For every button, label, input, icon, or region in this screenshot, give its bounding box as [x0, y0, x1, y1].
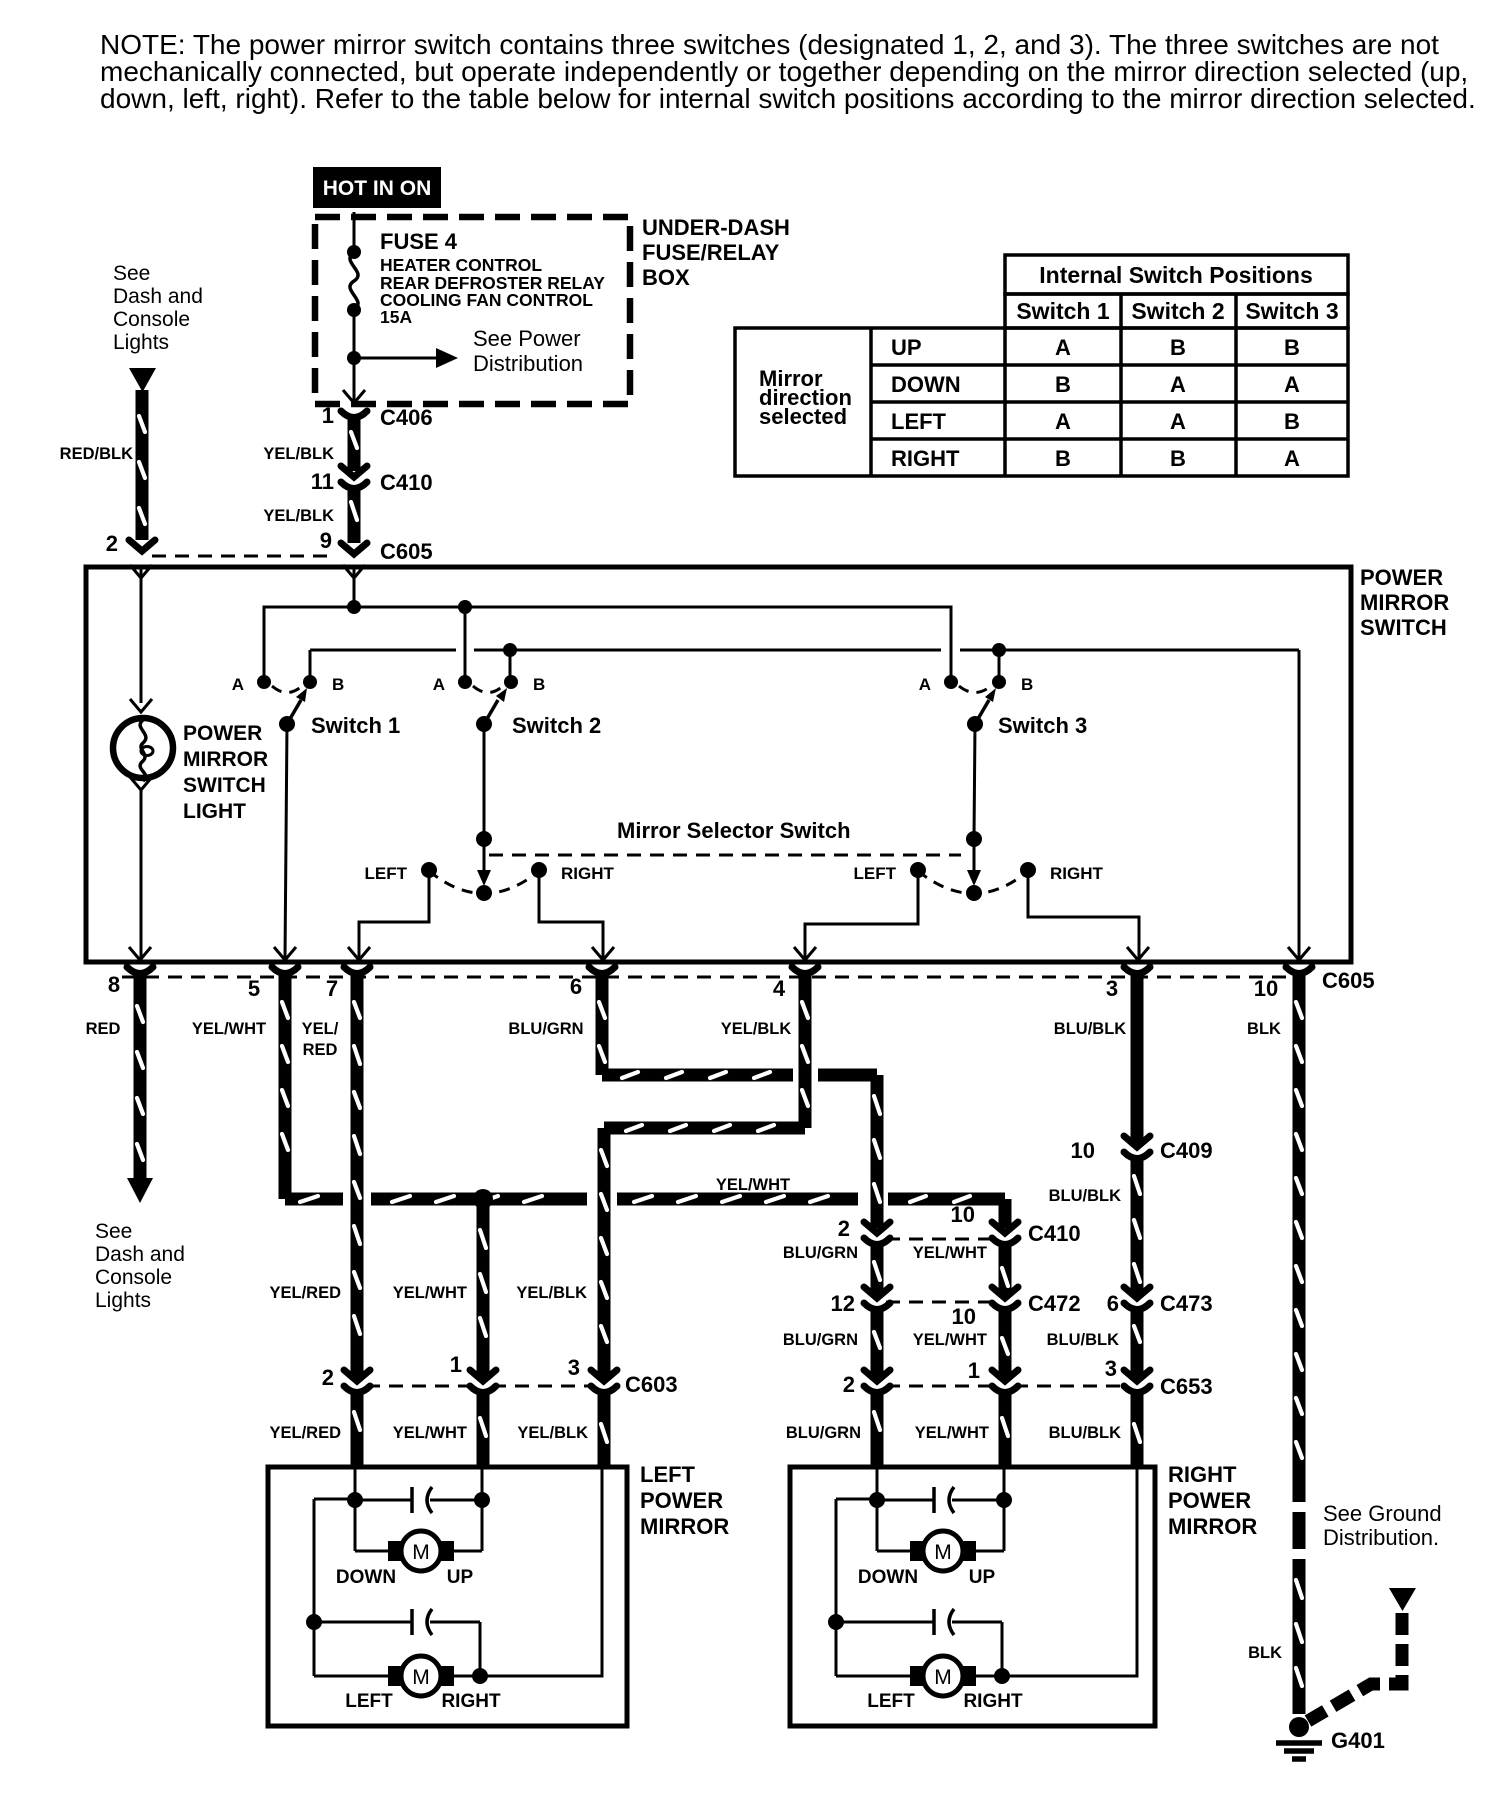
- selector throw arc (dashed): [918, 871, 1028, 894]
- wire pin2 to switch light: [140, 567, 143, 703]
- svg-text:1: 1: [450, 1352, 462, 1377]
- selector common node: [476, 885, 492, 901]
- connector C409 pin 10: [1071, 1136, 1213, 1163]
- svg-text:BLU/GRN: BLU/GRN: [783, 1244, 858, 1262]
- svg-text:Internal Switch Positions: Internal Switch Positions: [1039, 262, 1312, 288]
- svg-text:2: 2: [838, 1216, 850, 1241]
- wire pin2 into box: [876, 1467, 879, 1499]
- motor up/down: [876, 1500, 879, 1551]
- connector C653 pin 1: [968, 1358, 1018, 1393]
- svg-text:SWITCH: SWITCH: [1360, 615, 1447, 640]
- svg-text:G401: G401: [1331, 1728, 1385, 1753]
- svg-text:RIGHT: RIGHT: [891, 446, 960, 471]
- wire fuse to branch: [353, 310, 356, 358]
- svg-text:MIRROR: MIRROR: [640, 1514, 729, 1539]
- svg-text:M: M: [412, 1666, 430, 1689]
- node feed on A bus: [347, 600, 361, 614]
- svg-text:RIGHT: RIGHT: [963, 1691, 1023, 1712]
- svg-text:See: See: [113, 262, 150, 285]
- wire switch3 common to selector: [974, 724, 975, 838]
- svg-text:YEL/BLK: YEL/BLK: [263, 445, 334, 463]
- switch 1 contact A: [257, 675, 271, 689]
- svg-text:C410: C410: [380, 470, 433, 495]
- wire YEL/WHT C653 to right mirror: [999, 1393, 1012, 1467]
- svg-text:1: 1: [968, 1358, 980, 1383]
- connector C605 pin 10: [1286, 967, 1312, 974]
- wire from HOT IN ON into fuse box: [353, 212, 356, 252]
- connector C603 pin 3: [568, 1355, 678, 1397]
- connector C605 pin 7: [344, 967, 370, 974]
- wire BLK pin10 to ground: [1293, 974, 1306, 1502]
- svg-text:A: A: [1170, 409, 1186, 434]
- svg-text:11: 11: [311, 469, 334, 494]
- svg-text:YEL/WHT: YEL/WHT: [913, 1244, 987, 1262]
- svg-text:M: M: [412, 1541, 430, 1564]
- wire selector RIGHT contact to pin: [539, 870, 603, 958]
- svg-text:A: A: [1055, 409, 1071, 434]
- wire YEL/WHT junction down to C603: [477, 1199, 490, 1377]
- wire BLU/BLK C653 to right mirror: [1131, 1393, 1144, 1467]
- svg-text:FUSE 4: FUSE 4: [380, 229, 458, 254]
- svg-text:C653: C653: [1160, 1374, 1213, 1399]
- svg-text:Switch 2: Switch 2: [512, 713, 601, 738]
- svg-text:C473: C473: [1160, 1291, 1213, 1316]
- wire YEL/BLK pin4 down, left, down: [799, 974, 812, 1128]
- A bus wire: [264, 607, 951, 682]
- right power mirror box: [790, 1467, 1155, 1726]
- switch 2 contact B: [504, 675, 518, 689]
- wire ground distribution branch (dashed thick): [1308, 1613, 1402, 1721]
- svg-text:15A: 15A: [380, 307, 412, 327]
- svg-text:MIRROR: MIRROR: [1168, 1514, 1257, 1539]
- svg-text:LEFT: LEFT: [891, 409, 947, 434]
- svg-text:BLU/BLK: BLU/BLK: [1054, 1020, 1126, 1038]
- svg-text:LIGHT: LIGHT: [183, 800, 246, 823]
- svg-text:YEL/WHT: YEL/WHT: [913, 1331, 987, 1349]
- svg-text:B: B: [1021, 675, 1033, 694]
- node fuse4 bottom: [347, 303, 361, 317]
- wire pin1 into box: [481, 1467, 484, 1499]
- svg-text:A: A: [1055, 335, 1071, 360]
- svg-text:LEFT: LEFT: [867, 1691, 915, 1712]
- svg-text:YEL/WHT: YEL/WHT: [192, 1020, 266, 1038]
- selector throw arc (dashed): [429, 871, 539, 894]
- wire pin3 into box down right side: [483, 1467, 602, 1676]
- connector C605 pin 8: [127, 967, 153, 974]
- internal switch positions table: [735, 255, 1348, 476]
- connector C605 pin 6: [589, 967, 615, 974]
- wire YEL/WHT C410 to C472: [999, 1245, 1012, 1294]
- svg-text:3: 3: [1106, 976, 1118, 1001]
- breaker left/right: [314, 1621, 412, 1624]
- motor left/right: [313, 1622, 316, 1676]
- svg-text:YEL/RED: YEL/RED: [269, 1424, 341, 1442]
- off-page arrow from ground distribution: [1389, 1588, 1416, 1611]
- svg-text:UNDER-DASH: UNDER-DASH: [642, 215, 790, 240]
- wire switch2 common to selector: [483, 724, 486, 839]
- svg-text:YEL/BLK: YEL/BLK: [516, 1284, 587, 1302]
- label UNDER-DASH FUSE/RELAY BOX: [642, 215, 790, 290]
- entry arrow pin 2: [130, 565, 152, 578]
- switch 3 contact B: [992, 675, 1006, 689]
- svg-text:2: 2: [322, 1365, 334, 1390]
- node up/down right: [996, 1492, 1012, 1508]
- wire branch down to box edge: [353, 358, 356, 402]
- switch 2 throw arc (dashed): [473, 686, 503, 693]
- svg-text:C409: C409: [1160, 1138, 1213, 1163]
- svg-text:Switch 1: Switch 1: [1016, 298, 1110, 324]
- wire YEL/WHT horizontal run: [285, 1193, 343, 1206]
- switch 3 pivot: [967, 716, 983, 732]
- breaker up/down: [877, 1499, 934, 1502]
- switch 3 throw arc (dashed): [959, 686, 991, 693]
- svg-text:YEL/BLK: YEL/BLK: [517, 1424, 588, 1442]
- svg-text:down, left, right). Refer to t: down, left, right). Refer to the table b…: [100, 83, 1476, 114]
- svg-text:C406: C406: [380, 405, 433, 430]
- connector C473 pin 6: [1107, 1287, 1213, 1316]
- label POWER MIRROR SWITCH: [1360, 565, 1449, 640]
- svg-text:RED: RED: [303, 1041, 338, 1059]
- svg-text:B: B: [533, 675, 545, 694]
- svg-text:YEL/BLK: YEL/BLK: [263, 507, 334, 525]
- svg-text:12: 12: [831, 1291, 855, 1316]
- connector C603 pin 2: [322, 1365, 370, 1393]
- connector C605 pin 5: [272, 967, 298, 974]
- wire YEL/RED pin7 down to C603: [351, 974, 364, 1377]
- svg-text:Dash and: Dash and: [113, 285, 203, 308]
- svg-text:POWER: POWER: [640, 1488, 723, 1513]
- svg-text:LEFT: LEFT: [854, 864, 897, 883]
- svg-text:BLU/GRN: BLU/GRN: [786, 1424, 861, 1442]
- svg-text:Switch 1: Switch 1: [311, 713, 400, 738]
- bulb terminal arrow bottom: [130, 777, 152, 790]
- wire YEL/WHT C603 to left mirror: [477, 1393, 490, 1467]
- wire switch1 common to pin 5: [285, 724, 287, 958]
- node A bus to switch2: [458, 600, 472, 614]
- svg-text:Console: Console: [95, 1266, 172, 1289]
- connector C653 pin 2: [843, 1370, 890, 1397]
- wire selector LEFT contact to pin: [359, 870, 429, 958]
- svg-text:Switch 3: Switch 3: [998, 713, 1087, 738]
- svg-text:YEL/WHT: YEL/WHT: [716, 1176, 790, 1194]
- switch 1 pivot: [279, 716, 295, 732]
- svg-text:RIGHT: RIGHT: [441, 1691, 501, 1712]
- connector C472 pin 12: [831, 1287, 1081, 1316]
- svg-text:M: M: [934, 1541, 952, 1564]
- node left/right motor right: [994, 1668, 1010, 1684]
- node see-power-distribution branch: [347, 351, 361, 365]
- entry arrow pin 9: [343, 565, 365, 578]
- svg-text:BLK: BLK: [1248, 1644, 1282, 1662]
- mirror selector dashed line: [489, 854, 961, 857]
- selector wiper arrow: [973, 839, 976, 874]
- svg-text:7: 7: [326, 976, 338, 1001]
- svg-text:UP: UP: [447, 1567, 474, 1588]
- svg-text:B: B: [1170, 446, 1186, 471]
- svg-text:RED/BLK: RED/BLK: [60, 445, 133, 463]
- selector wiper node: [476, 831, 492, 847]
- svg-text:POWER: POWER: [1168, 1488, 1251, 1513]
- svg-text:Switch 2: Switch 2: [1131, 298, 1224, 324]
- connector C605 bottom row (dashed): [122, 976, 1290, 979]
- dashed line C410: [886, 1238, 996, 1241]
- selector common node: [966, 885, 982, 901]
- wire YEL/WHT corner down to C410 pin 10: [999, 1199, 1012, 1228]
- label See Power Distribution: [473, 326, 583, 376]
- svg-text:2: 2: [843, 1372, 855, 1397]
- svg-text:A: A: [1284, 446, 1300, 471]
- svg-text:6: 6: [570, 974, 582, 999]
- svg-text:YEL/RED: YEL/RED: [269, 1284, 341, 1302]
- svg-text:A: A: [919, 675, 931, 694]
- connector C605 pin 9: [320, 528, 433, 564]
- node left/right motor right: [472, 1668, 488, 1684]
- svg-text:UP: UP: [969, 1567, 996, 1588]
- node up/down right: [474, 1492, 490, 1508]
- label LEFT POWER MIRROR: [640, 1462, 729, 1539]
- breaker left/right: [836, 1621, 934, 1624]
- svg-text:2: 2: [106, 531, 118, 556]
- box exit arrows: [129, 947, 151, 960]
- svg-text:HEATER CONTROL: HEATER CONTROL: [380, 255, 542, 275]
- wire YEL/BLK C603 to left mirror: [598, 1393, 611, 1467]
- label FUSE 4 with values: [380, 229, 605, 327]
- svg-text:selected: selected: [759, 404, 847, 429]
- node YEL/WHT junction: [473, 1189, 493, 1209]
- node left/right branch: [828, 1614, 844, 1630]
- svg-text:B: B: [332, 675, 344, 694]
- connector C410 pin 2: [838, 1216, 890, 1245]
- switch 2 contact A: [458, 675, 472, 689]
- wire BLU/GRN pin6 down and right: [596, 974, 609, 1075]
- motor up/down: [354, 1500, 357, 1551]
- dashed line C653: [886, 1385, 996, 1388]
- motor left/right: [835, 1622, 838, 1676]
- svg-text:LEFT: LEFT: [640, 1462, 696, 1487]
- svg-text:9: 9: [320, 528, 332, 553]
- svg-text:DOWN: DOWN: [858, 1567, 918, 1588]
- node B bus switch2: [503, 643, 517, 657]
- svg-text:BLU/BLK: BLU/BLK: [1049, 1424, 1121, 1442]
- svg-text:C472: C472: [1028, 1291, 1081, 1316]
- wire pin1 into box: [1003, 1467, 1006, 1499]
- svg-text:MIRROR: MIRROR: [1360, 590, 1449, 615]
- svg-text:RIGHT: RIGHT: [1050, 864, 1104, 883]
- wire selector LEFT contact to pin: [805, 870, 918, 958]
- fuse F4 element (squiggle): [350, 252, 358, 310]
- wire branch to left/right motor: [314, 1498, 355, 1501]
- svg-text:C410: C410: [1028, 1221, 1081, 1246]
- wire bulb to pin 8: [140, 789, 143, 958]
- svg-text:10: 10: [952, 1304, 976, 1329]
- svg-text:A: A: [1284, 372, 1300, 397]
- bulb terminal arrow top: [130, 699, 152, 712]
- svg-text:DOWN: DOWN: [336, 1567, 396, 1588]
- connector C410 pin 11: [311, 466, 433, 495]
- svg-text:3: 3: [568, 1355, 580, 1380]
- svg-text:3: 3: [1105, 1356, 1117, 1381]
- svg-text:FUSE/RELAY: FUSE/RELAY: [642, 240, 780, 265]
- svg-text:1: 1: [322, 403, 334, 428]
- label See Ground Distribution: [1323, 1501, 1442, 1550]
- switch 1 contact B: [303, 675, 317, 689]
- svg-text:Dash and: Dash and: [95, 1243, 185, 1266]
- dashed line C603: [366, 1385, 474, 1388]
- node up/down left: [347, 1492, 363, 1508]
- under-dash fuse/relay box (dashed): [315, 217, 630, 404]
- svg-text:B: B: [1284, 335, 1300, 360]
- node left/right branch: [306, 1614, 322, 1630]
- dashed line C472: [886, 1301, 996, 1304]
- svg-text:YEL/BLK: YEL/BLK: [721, 1020, 792, 1038]
- svg-text:BLU/BLK: BLU/BLK: [1049, 1187, 1121, 1205]
- power mirror switch box: [86, 567, 1351, 962]
- svg-text:C605: C605: [1322, 968, 1375, 993]
- power mirror switch light (bulb): [113, 718, 173, 781]
- connector C603 pin 1: [450, 1352, 496, 1393]
- selector LEFT contact: [421, 862, 437, 878]
- selector LEFT contact: [910, 862, 926, 878]
- svg-text:BOX: BOX: [642, 265, 690, 290]
- label RIGHT POWER MIRROR: [1168, 1462, 1257, 1539]
- svg-text:B: B: [1284, 409, 1300, 434]
- svg-text:YEL/: YEL/: [302, 1020, 339, 1038]
- svg-text:BLU/BLK: BLU/BLK: [1047, 1331, 1119, 1349]
- wire BLU/GRN C653 to right mirror: [871, 1393, 884, 1467]
- svg-text:RIGHT: RIGHT: [1168, 1462, 1237, 1487]
- svg-text:10: 10: [951, 1202, 975, 1227]
- svg-text:HOT IN ON: HOT IN ON: [323, 177, 432, 200]
- svg-text:8: 8: [108, 972, 120, 997]
- connector C472 pin 10: [952, 1287, 1018, 1329]
- wire color labels under C605: [86, 1020, 1281, 1059]
- svg-text:YEL/WHT: YEL/WHT: [393, 1284, 467, 1302]
- connector C605 pin 2: [106, 531, 155, 556]
- svg-text:C605: C605: [380, 539, 433, 564]
- svg-text:Lights: Lights: [95, 1289, 151, 1312]
- wire pin3 into box down right side: [1005, 1467, 1137, 1676]
- ground G401: [1276, 1717, 1385, 1759]
- svg-text:A: A: [1170, 372, 1186, 397]
- svg-text:UP: UP: [891, 335, 922, 360]
- switch 3 blade (in position B): [975, 700, 989, 724]
- svg-text:POWER: POWER: [1360, 565, 1443, 590]
- wire BLU/BLK C409 to C473: [1131, 1159, 1144, 1294]
- svg-text:Distribution: Distribution: [473, 351, 583, 376]
- node fuse4 top: [347, 245, 361, 259]
- wire branch arrow to See Power Distribution: [354, 357, 436, 360]
- svg-text:C603: C603: [625, 1372, 678, 1397]
- svg-text:LEFT: LEFT: [345, 1691, 393, 1712]
- svg-text:4: 4: [773, 976, 786, 1001]
- svg-text:SWITCH: SWITCH: [183, 774, 266, 797]
- wire YEL/RED C603 to left mirror: [351, 1393, 364, 1467]
- switch 1 blade (in position B): [287, 700, 301, 724]
- svg-text:10: 10: [1254, 976, 1278, 1001]
- svg-text:Distribution.: Distribution.: [1323, 1525, 1439, 1550]
- wire BLU/GRN C472 to C653: [871, 1310, 884, 1377]
- svg-text:See Ground: See Ground: [1323, 1501, 1442, 1526]
- wire BLU/BLK C473 to C653: [1131, 1310, 1144, 1377]
- svg-text:RED: RED: [86, 1020, 121, 1038]
- svg-text:Switch 3: Switch 3: [1245, 298, 1338, 324]
- label See Dash and Console Lights (bottom): [95, 1220, 185, 1312]
- svg-text:MIRROR: MIRROR: [183, 748, 268, 771]
- svg-text:A: A: [232, 675, 244, 694]
- wire BLU/BLK pin3 to C409: [1131, 974, 1144, 1143]
- wire feed pin9 to A bus: [353, 567, 356, 607]
- svg-text:POWER: POWER: [183, 722, 262, 745]
- switch 3 contact A: [944, 675, 958, 689]
- B bus wire: [309, 650, 312, 682]
- node up/down left: [869, 1492, 885, 1508]
- off-page arrow from dash/console lights: [129, 368, 156, 392]
- wire selector RIGHT contact to pin: [1028, 870, 1139, 958]
- connector C605 pin 3: [1124, 967, 1150, 974]
- wire RED pin 8 to dash/console lights: [134, 974, 147, 1180]
- svg-text:6: 6: [1107, 1291, 1119, 1316]
- svg-text:10: 10: [1071, 1138, 1095, 1163]
- selector wiper node: [966, 831, 982, 847]
- node B bus switch3: [992, 643, 1006, 657]
- wire YEL/WHT pin5 down: [279, 974, 292, 1199]
- label See Dash and Console Lights (top): [113, 262, 203, 354]
- svg-text:BLU/GRN: BLU/GRN: [783, 1331, 858, 1349]
- connector C653 pin 3: [1105, 1356, 1213, 1399]
- selector wiper arrow: [483, 839, 486, 874]
- wire BLU/GRN down to C410 pin 2: [871, 1075, 884, 1228]
- switch 1 throw arc (dashed): [272, 686, 302, 693]
- wire B bus corner down to pin 10: [1298, 650, 1301, 958]
- dashed connector line C605 top: [152, 555, 332, 558]
- wire YEL/BLK C410 to C605: [263, 489, 357, 543]
- svg-text:5: 5: [248, 976, 260, 1001]
- svg-text:B: B: [1170, 335, 1186, 360]
- svg-text:Lights: Lights: [113, 331, 169, 354]
- wire RED/BLK: [60, 390, 145, 540]
- connector C605 pin 4: [792, 967, 818, 974]
- note text block: [100, 29, 1476, 114]
- breaker up/down: [355, 1499, 412, 1502]
- svg-text:See Power: See Power: [473, 326, 581, 351]
- svg-text:See: See: [95, 1220, 132, 1243]
- svg-text:A: A: [433, 675, 445, 694]
- svg-text:YEL/WHT: YEL/WHT: [393, 1424, 467, 1442]
- svg-text:B: B: [1055, 372, 1071, 397]
- svg-text:Mirror Selector Switch: Mirror Selector Switch: [617, 818, 851, 843]
- svg-text:LEFT: LEFT: [365, 864, 408, 883]
- wire pin2 into box: [354, 1467, 357, 1499]
- switch 2 blade (in position B): [484, 700, 498, 724]
- svg-text:DOWN: DOWN: [891, 372, 961, 397]
- svg-text:BLU/GRN: BLU/GRN: [508, 1020, 583, 1038]
- wire branch to left/right motor: [836, 1498, 877, 1501]
- connector C410 pin 10: [951, 1202, 1081, 1246]
- svg-text:Console: Console: [113, 308, 190, 331]
- svg-text:YEL/WHT: YEL/WHT: [915, 1424, 989, 1442]
- HOT IN ON banner: [313, 167, 441, 208]
- svg-text:M: M: [934, 1666, 952, 1689]
- left power mirror box: [268, 1467, 627, 1726]
- svg-text:B: B: [1055, 446, 1071, 471]
- switch 2 pivot: [476, 716, 492, 732]
- wire YEL/BLK C406 to C410: [263, 418, 357, 471]
- svg-text:RIGHT: RIGHT: [561, 864, 615, 883]
- wire BLU/GRN C410 to C472: [871, 1245, 884, 1294]
- wire YEL/WHT C472 to C653: [999, 1310, 1012, 1377]
- selector RIGHT contact: [1020, 862, 1036, 878]
- connector C406 pin 1: [322, 403, 433, 430]
